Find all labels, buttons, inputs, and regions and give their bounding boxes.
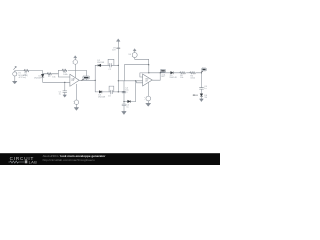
- ground G2: [63, 95, 66, 97]
- ground G3: [74, 108, 78, 111]
- wire C1 to ground: [64, 93, 66, 95]
- svg-text:12V: 12V: [112, 50, 116, 52]
- op-amp OA1: [70, 74, 79, 86]
- svg-text:-4 4 1m): -4 4 1m): [18, 77, 26, 79]
- wire D5 to R4: [173, 72, 179, 74]
- wire V4 to box top right: [135, 58, 149, 65]
- wire node B down: [64, 82, 66, 90]
- wire R5 to output node: [196, 73, 201, 88]
- bottom caption bar: [0, 153, 220, 165]
- plus input stub OA2: [137, 81, 143, 83]
- wire stub up to box bottom: [135, 81, 137, 102]
- caption text: [43, 154, 107, 162]
- bypass loop C3: [109, 86, 114, 92]
- left branch vertical: [94, 65, 96, 92]
- capacitor C6: [200, 88, 204, 89]
- V1 signal arrow: [14, 66, 17, 69]
- voltage source V4: [132, 53, 137, 58]
- stub with diode D4: [124, 101, 136, 103]
- svg-text:http://circuitlab.com/cmar/3mx: http://circuitlab.com/cmar/3mxqpbaecu: [43, 158, 95, 162]
- svg-text:net: net: [161, 75, 164, 78]
- svg-text:LM: LM: [71, 80, 74, 82]
- diode D4: [128, 100, 131, 102]
- capacitor C1: [63, 91, 67, 93]
- resistor R1: [24, 70, 29, 72]
- capacitor C5 chain: [122, 104, 126, 105]
- svg-text:1N4148: 1N4148: [98, 96, 106, 98]
- supply node arrow above V2: [74, 56, 77, 58]
- wire feedback to output: [68, 70, 87, 80]
- wire op-amp2 bottom to V5: [147, 83, 149, 97]
- voltage source V2: [73, 60, 78, 65]
- diode D2: [98, 64, 101, 66]
- wire OA2 output: [152, 73, 160, 80]
- chain wire to ground: [123, 106, 125, 112]
- svg-text:LAB: LAB: [29, 159, 37, 164]
- svg-text:1N4148: 1N4148: [34, 78, 42, 80]
- wire V1 top: [15, 71, 24, 72]
- labels: [16, 47, 208, 108]
- wire op-amp1 output: [79, 79, 95, 81]
- capacitor C4: [122, 91, 126, 92]
- resistor R2: [43, 73, 59, 75]
- wire C6 to D6: [201, 89, 203, 93]
- resistor R4: [180, 72, 186, 74]
- svg-text:1N4148: 1N4148: [169, 77, 177, 79]
- rail vertical: [117, 44, 119, 92]
- feedback loop OA2: [140, 73, 148, 77]
- resistor R5: [190, 72, 196, 74]
- wire R1 to node A: [29, 71, 43, 75]
- capacitor C2: [110, 63, 111, 67]
- wire D6 to ground: [201, 97, 203, 99]
- net flag F2: [160, 71, 161, 74]
- svg-text:LM: LM: [145, 80, 148, 82]
- supply arrow VCC rail: [117, 39, 121, 42]
- wire op-amp bottom to V3: [76, 84, 78, 100]
- wire D1 to plus input: [43, 77, 70, 82]
- voltage source V1: [13, 72, 17, 76]
- wire main right: [149, 72, 171, 74]
- diode D6: [200, 94, 203, 97]
- wire V5 to ground: [147, 101, 149, 103]
- net flag F1: [82, 79, 84, 80]
- diode D5: [171, 72, 174, 74]
- voltage source V5: [146, 96, 151, 101]
- CircuitLab logo: [8, 156, 37, 165]
- wire R4 to R5: [186, 72, 189, 74]
- wire rail to box: [118, 80, 124, 82]
- resistor R3 feedback: [58, 69, 66, 71]
- svg-text:1N4148: 1N4148: [97, 62, 105, 64]
- supply arrow above V4: [133, 49, 136, 51]
- op-amp OA2: [143, 74, 153, 86]
- ground G5: [200, 99, 204, 102]
- wire V2 to op-amp top: [74, 64, 76, 77]
- arrow pointing left: [193, 95, 198, 96]
- wire V1 bottom: [14, 76, 16, 81]
- chain wire: [123, 93, 125, 104]
- ground G1: [13, 81, 17, 84]
- wire inverting node vertical: [58, 70, 70, 77]
- bypass loop C2: [108, 59, 114, 65]
- chain below box: [123, 81, 125, 91]
- top branch wire: [95, 64, 118, 66]
- ground G4: [122, 111, 126, 114]
- capacitor C3: [111, 90, 112, 94]
- diode D3: [99, 91, 102, 93]
- box component: [124, 65, 148, 81]
- diode D1: [41, 74, 44, 77]
- junction dots: [64, 64, 202, 102]
- wire V3 to ground: [76, 105, 78, 108]
- net flag F3: [202, 70, 203, 73]
- ground G6: [146, 103, 151, 106]
- voltage source V3: [74, 100, 78, 104]
- bottom branch wire: [95, 91, 124, 93]
